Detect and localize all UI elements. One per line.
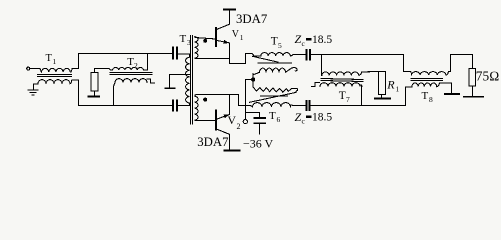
- transistor V2 emitter with arrow: [216, 95, 229, 120]
- wire input to T1: [30, 69, 42, 73]
- wire top rail: [79, 53, 174, 55]
- svg-text:3DA7: 3DA7: [236, 12, 268, 26]
- svg-text:2: 2: [237, 122, 241, 131]
- input terminal: [27, 67, 30, 70]
- wire T3 bottom winding to V2 emitter line: [195, 95, 239, 106]
- svg-text:3DA7: 3DA7: [197, 135, 229, 149]
- svg-text:V: V: [232, 29, 240, 40]
- transformer T8 top winding: [412, 72, 446, 76]
- transformer T2 core: [110, 73, 152, 75]
- transistor V1 emitter with arrow: [216, 40, 230, 63]
- transistor V1 base bar: [215, 28, 217, 46]
- transformer T7 top winding: [322, 72, 359, 75]
- transformer T1 core: [38, 75, 72, 77]
- node center tap dot: [251, 77, 255, 81]
- svg-text:5: 5: [278, 41, 282, 50]
- wire T7 bottom right down to bottom line: [361, 86, 363, 105]
- transformer T6 core: [250, 92, 297, 102]
- transformer T3 secondary bottom winding: [195, 96, 198, 120]
- transformer T3 primary winding: [186, 57, 190, 103]
- wire top line to T8: [310, 54, 404, 56]
- capacitor output top: [306, 50, 310, 60]
- resistor 75ohm bottom stub terminal: [472, 86, 474, 97]
- transformer T1 primary winding: [42, 68, 72, 72]
- wire bottom line up to T8: [406, 87, 412, 106]
- wire T6 bottom right to capacitor: [290, 104, 306, 106]
- svg-text:7: 7: [346, 95, 350, 104]
- transformer T2 primary winding: [113, 67, 144, 70]
- transistor V1 collector: [216, 10, 230, 30]
- svg-text:75Ω: 75Ω: [476, 68, 500, 83]
- svg-text:8: 8: [429, 95, 433, 104]
- transistor V2 collector: [216, 129, 230, 150]
- wire bottom rail: [79, 105, 174, 107]
- node polarity dot V2: [203, 98, 207, 102]
- svg-text:Z: Z: [295, 32, 302, 46]
- svg-text:c: c: [302, 117, 306, 126]
- wire T8 top right up to 75ohm: [446, 55, 473, 76]
- svg-text:−36 V: −36 V: [243, 137, 274, 151]
- capacitor top coupling: [173, 47, 177, 58]
- capacitor bypass at supply: [255, 118, 266, 123]
- capacitor bottom coupling: [173, 100, 177, 110]
- wire T3 bottom winding to V2 base: [195, 120, 216, 122]
- wire T1 secondary to ground: [34, 84, 39, 90]
- wire T3 primary center tap stub: [170, 75, 190, 88]
- wire V2 emitter line to T6: [239, 106, 253, 107]
- svg-text:V: V: [227, 113, 236, 127]
- capacitor output bottom: [306, 101, 309, 110]
- svg-text:1: 1: [396, 85, 400, 94]
- transformer T1 secondary winding: [38, 80, 72, 84]
- resistor R1: [378, 71, 385, 94]
- wire branch down to T7: [321, 55, 323, 76]
- svg-text:T: T: [46, 53, 53, 64]
- collector supply T-bar V1: [224, 8, 235, 10]
- transistor V2 base bar: [215, 110, 217, 129]
- wire top line down to T8: [404, 55, 412, 76]
- wire T1 primary right up to top rail: [72, 54, 79, 69]
- transformer T6 bottom winding: [253, 103, 291, 107]
- svg-text:3: 3: [187, 38, 191, 47]
- svg-text:T: T: [339, 90, 346, 102]
- node polarity dot V1: [203, 39, 207, 43]
- wire center tap vertical: [252, 74, 254, 87]
- svg-text:T: T: [271, 36, 278, 48]
- resistor bottom stub terminal: [94, 91, 96, 96]
- svg-text:T: T: [422, 90, 429, 102]
- wire capacitor to T3: [177, 54, 190, 57]
- wire T1 secondary right down to bottom rail: [72, 80, 79, 106]
- svg-text:T: T: [269, 110, 276, 122]
- wire bottom line to right section: [309, 105, 405, 107]
- wire 75ohm top: [472, 55, 474, 69]
- wire V1 emitter to T5: [230, 54, 253, 64]
- wire T8 bottom right to stub terminal: [437, 83, 452, 94]
- transformer T5 top winding: [252, 53, 290, 56]
- transformer T8 core: [411, 79, 442, 81]
- transformer T2 secondary winding: [115, 79, 147, 83]
- wire bypass capacitor top: [246, 113, 260, 118]
- ground: [28, 90, 38, 95]
- wire T3 top winding return to V1 emitter: [195, 58, 230, 60]
- wire T2 secondary right stub: [147, 79, 155, 83]
- wire resistor top: [95, 69, 113, 73]
- svg-text:Z: Z: [295, 110, 302, 124]
- transformer T5 bottom winding: [253, 68, 297, 75]
- transformer T3 secondary top winding: [195, 37, 198, 59]
- transformer T7 core: [321, 79, 363, 82]
- supply terminal -36V: [243, 120, 247, 124]
- wire bypass capacitor bottom stub: [259, 123, 261, 134]
- wire T2 secondary left down to bottom rail: [114, 83, 116, 106]
- svg-text:18.5: 18.5: [312, 34, 332, 46]
- transformer T8 bottom winding: [412, 83, 437, 87]
- svg-text:R: R: [386, 78, 395, 92]
- resistor 75 ohm load: [469, 69, 475, 86]
- wire T3 top winding to V1 base: [195, 38, 216, 40]
- resistor (bias): [91, 73, 98, 91]
- svg-text:T: T: [180, 33, 187, 45]
- transformer T5 core: [253, 56, 292, 63]
- transformer T7 bottom winding left curl: [312, 83, 320, 87]
- wire T3 primary bottom to capacitor: [177, 103, 190, 106]
- svg-text:c: c: [302, 39, 306, 48]
- wire T5 top winding right to capacitor: [290, 54, 306, 56]
- svg-text:18.5: 18.5: [312, 112, 332, 124]
- svg-text:1: 1: [240, 33, 244, 42]
- transformer T7 bottom winding: [320, 83, 362, 87]
- transformer T6 top winding: [253, 87, 297, 92]
- wire T7 top right to R1: [359, 72, 381, 76]
- svg-text:6: 6: [277, 115, 281, 124]
- wire T2 primary right to top rail: [144, 54, 148, 71]
- svg-text:1: 1: [53, 57, 57, 66]
- transformer T3 core: [191, 36, 193, 125]
- svg-text:2: 2: [134, 61, 138, 70]
- resistor R1 bottom stub terminal: [381, 95, 383, 99]
- collector supply T-bar V2: [224, 149, 239, 151]
- wire center tap to supply line: [246, 80, 254, 120]
